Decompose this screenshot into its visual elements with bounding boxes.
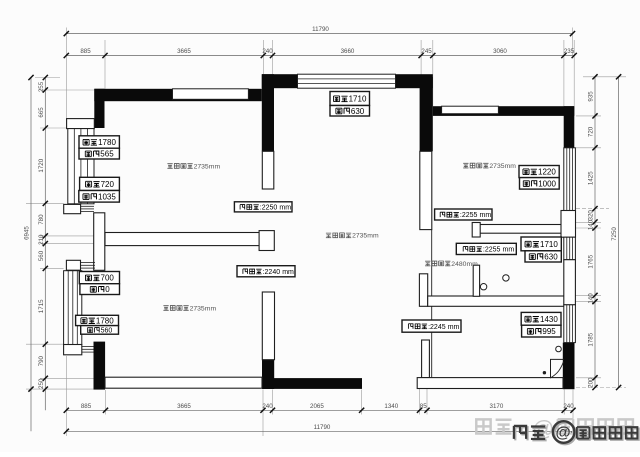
extension line bottom [419, 389, 421, 415]
extension line bottom [262, 390, 264, 437]
extension line bottom [563, 390, 565, 415]
extension line top [65, 28, 67, 119]
svg-text:1720: 1720 [38, 158, 45, 172]
sill lines [81, 205, 94, 207]
svg-text:0: 0 [105, 285, 110, 294]
svg-text:560: 560 [38, 250, 45, 261]
label 窗下560 [81, 326, 119, 335]
label 窗下565 [79, 148, 119, 159]
thin wall between left windows [94, 213, 105, 270]
dimension line bottom outer 11790 [66, 430, 573, 432]
label 窗下630 [330, 106, 370, 117]
svg-text:2480: 2480 [451, 261, 466, 268]
svg-text:1220: 1220 [538, 168, 556, 177]
bathroom top wall [474, 225, 564, 234]
sill lines [81, 267, 95, 269]
room label bathroom 室内净高2480mm [425, 261, 430, 266]
svg-text:7250: 7250 [611, 227, 618, 241]
dimension line right outer 7250 [618, 77, 620, 388]
dimension line right inner [594, 77, 596, 388]
svg-text:250: 250 [38, 378, 45, 389]
svg-text:565: 565 [100, 150, 114, 159]
extension line right [576, 115, 601, 117]
wall pier bottom-center [262, 360, 274, 389]
label 门洞高:2255mm (bathroom) [456, 243, 516, 254]
svg-text:6945: 6945 [24, 226, 31, 240]
extension line right [567, 294, 601, 296]
wall bottom of central room [262, 378, 362, 389]
svg-text:885: 885 [81, 403, 92, 410]
svg-text:1035: 1035 [98, 192, 116, 201]
svg-text:665: 665 [38, 107, 45, 118]
svg-text:235: 235 [564, 48, 575, 55]
extension line right [576, 221, 601, 223]
label 窗高700 (lower-left window) [79, 272, 119, 284]
extension line bottom [105, 390, 107, 415]
bottom wall of bottom-right room [417, 378, 563, 389]
svg-text:790: 790 [38, 355, 45, 366]
extension line left [26, 202, 64, 204]
svg-text:240: 240 [563, 403, 574, 410]
door jamb below central-left pier (door 2250) [262, 151, 274, 189]
svg-text:140: 140 [588, 219, 595, 230]
svg-text:3170: 3170 [490, 403, 504, 410]
shower screen wall [473, 265, 479, 296]
extension line left [40, 243, 94, 245]
svg-text:1000: 1000 [538, 179, 556, 188]
window bay lower-left: bottom end box [64, 345, 82, 355]
svg-text:11790: 11790 [312, 26, 329, 33]
svg-text:320: 320 [588, 210, 595, 221]
svg-text:200: 200 [588, 377, 595, 388]
svg-text:720: 720 [101, 180, 115, 189]
label 窗下995 [522, 325, 561, 337]
extension line left [40, 235, 94, 237]
svg-text:630: 630 [544, 252, 558, 261]
wall pier bottom-right corner [563, 343, 575, 390]
extension line bottom [572, 390, 574, 437]
svg-text:995: 995 [542, 327, 556, 336]
svg-text:mm: mm [505, 163, 517, 170]
beam/lintel over top-right wall opening [442, 106, 499, 114]
bathroom bottom wall [428, 296, 565, 306]
sill lines [82, 351, 94, 353]
wall pier bottom-left corner [94, 342, 106, 390]
label 门洞高:2255mm (top-right room) [435, 209, 492, 220]
floor drain circle 2 [480, 284, 486, 290]
svg-text:mm: mm [480, 212, 492, 219]
label 窗下1000 [520, 178, 560, 190]
svg-text:255: 255 [38, 81, 45, 92]
svg-text:3665: 3665 [177, 403, 191, 410]
wall pier central room left [262, 74, 274, 151]
small dot [543, 371, 546, 374]
svg-text:85: 85 [420, 403, 427, 410]
right wall end box between windows [561, 211, 576, 238]
window bay upper-left: top end box [67, 119, 95, 129]
svg-text:720: 720 [588, 126, 595, 137]
svg-text:mm: mm [367, 233, 379, 240]
extension line left [26, 388, 94, 390]
svg-text:2735: 2735 [489, 163, 504, 170]
extension line top [262, 40, 264, 74]
svg-text:2735: 2735 [194, 163, 209, 170]
extension line left [40, 267, 64, 269]
corridor wall end cap [259, 231, 274, 251]
watermark toutiao (dark embossed) 头条 @装修情报 [515, 423, 638, 445]
bathroom left wall [419, 274, 427, 307]
svg-text:3665: 3665 [177, 48, 191, 55]
extension line left [40, 89, 94, 91]
wall pier top-right corner [564, 106, 575, 148]
svg-text:@: @ [556, 425, 571, 442]
extension line right [576, 377, 601, 379]
label 窗高1780 (lower-left) [76, 315, 119, 325]
extension line top [572, 28, 574, 56]
svg-text:3060: 3060 [493, 48, 507, 55]
extension line top [563, 40, 565, 106]
room label top-left 室内净高2735mm [167, 164, 172, 169]
window lower-left (hatch) [64, 271, 82, 345]
extension line top [272, 40, 274, 74]
svg-text::2255: :2255 [483, 247, 501, 254]
svg-text:560: 560 [101, 328, 113, 335]
svg-text:1710: 1710 [540, 240, 558, 249]
label 窗高1430 (right wall lower window) [521, 312, 561, 325]
corner shower/door swing in bottom-right room [551, 359, 564, 378]
svg-text::2250: :2250 [260, 205, 278, 212]
hallway edge line [431, 230, 433, 378]
right wall window upper (hatch, 1220) [564, 148, 576, 211]
label 门洞高:2245mm (bottom-right room) [402, 320, 461, 332]
svg-text:1430: 1430 [540, 315, 558, 324]
svg-text:mm: mm [205, 305, 217, 312]
svg-text:2735: 2735 [352, 233, 367, 240]
wall pier central room right [420, 77, 433, 151]
svg-text:210: 210 [38, 234, 45, 245]
door jamb below central-right pier (door 2255) [420, 151, 432, 229]
right wall window middle (hatch, 1710) [564, 237, 576, 260]
sill lines [81, 208, 94, 210]
right wall segment (white) [564, 260, 576, 305]
svg-text:3660: 3660 [341, 48, 355, 55]
label 窗高1220 (right wall upper window) [519, 166, 559, 178]
bottom-right room left wall jamb (door 2245) [422, 340, 430, 378]
extension line bottom [426, 389, 428, 415]
svg-text:1765: 1765 [588, 254, 595, 268]
svg-text:700: 700 [101, 274, 115, 283]
label 窗高1710 (right wall middle window) [521, 237, 561, 251]
label 窗高1780 (upper-left window) [79, 136, 119, 148]
label 窗下0 [80, 284, 120, 295]
svg-text:mm: mm [503, 247, 515, 254]
extension line top [432, 40, 434, 106]
svg-text:mm: mm [467, 261, 479, 268]
wall top of central room [262, 74, 433, 88]
extension line top [420, 40, 422, 77]
svg-text:2065: 2065 [310, 403, 324, 410]
bottom wall of bottom-left room [105, 377, 262, 388]
window top-center (4-line) [298, 74, 396, 88]
dimension line left outer 6945 [30, 78, 32, 432]
extension line right [583, 76, 626, 78]
extension line top [104, 40, 106, 89]
label 门洞高:2250mm [234, 202, 292, 212]
sill lines [82, 348, 94, 350]
door jamb above bottom-center pier (door 2240) [262, 292, 274, 360]
small circle fixture [556, 346, 562, 352]
extension line right [576, 208, 609, 210]
label 窗高1710 (top window) [330, 92, 370, 106]
right wall window lower (hatch, 1430) [564, 305, 576, 343]
svg-text:mm: mm [279, 205, 291, 212]
dimension line bottom inner [66, 409, 573, 411]
extension line right [576, 387, 626, 389]
svg-text:mm: mm [448, 324, 460, 331]
extension line left [40, 127, 68, 129]
label 门洞高:2240mm [237, 266, 295, 277]
svg-text:2735: 2735 [190, 305, 205, 312]
interior corridor wall (between top-left and bottom-left rooms) [105, 233, 263, 246]
svg-text:1780: 1780 [96, 317, 114, 326]
svg-text:1340: 1340 [384, 403, 398, 410]
window bay upper-left: bottom end box [64, 204, 81, 213]
svg-text::2240: :2240 [263, 269, 281, 276]
wall top of top-right room [433, 106, 575, 116]
svg-text:140: 140 [588, 293, 595, 304]
wall pier top-left corner [94, 89, 104, 128]
svg-text:1780: 1780 [98, 138, 116, 147]
sill lines [82, 346, 94, 348]
sill lines [81, 211, 94, 213]
extension line bottom [65, 356, 67, 436]
svg-text:885: 885 [80, 48, 91, 55]
extension line bottom [361, 390, 363, 415]
room label top-right 室内净高2735mm [463, 163, 468, 168]
window bay lower-left: top end box [66, 260, 80, 270]
window upper-left (hatch) [68, 129, 94, 204]
watermark zhihu (light gray) 知乎 @装修情报 [476, 416, 633, 441]
svg-text:1785: 1785 [588, 332, 595, 346]
svg-text:mm: mm [282, 269, 294, 276]
extension line right [576, 227, 601, 229]
svg-text:1710: 1710 [349, 95, 367, 104]
svg-text:240: 240 [262, 403, 273, 410]
svg-text:1425: 1425 [588, 171, 595, 185]
sill lines [81, 262, 95, 264]
svg-text:mm: mm [209, 163, 221, 170]
extension line bottom [272, 390, 274, 415]
extension line right [567, 301, 601, 303]
label 窗高720 [80, 177, 120, 190]
extension line left [26, 343, 64, 345]
svg-text:245: 245 [421, 48, 432, 55]
sill lines [81, 264, 95, 266]
label 窗下1035 [79, 191, 120, 203]
extension line left [35, 77, 60, 79]
svg-text:240: 240 [262, 48, 273, 55]
svg-text:11790: 11790 [314, 424, 331, 431]
svg-text::2255: :2255 [460, 212, 478, 219]
dimension line top outer 11790 [66, 33, 572, 35]
dimension line left inner [44, 78, 46, 411]
beam/lintel over top-left wall opening [173, 89, 249, 100]
label 窗下630 (right wall) [525, 251, 561, 262]
room label central 室内净高2735mm [326, 233, 331, 238]
svg-text::2245: :2245 [428, 324, 446, 331]
dimension line top inner [66, 55, 574, 57]
room label bottom-left 室内净高2735mm [163, 306, 168, 311]
svg-text:780: 780 [38, 214, 45, 225]
extension line top [573, 40, 575, 106]
bathroom top wall end cap [472, 223, 480, 238]
svg-text:1715: 1715 [38, 299, 45, 313]
svg-text:935: 935 [588, 91, 595, 102]
extension line right [576, 147, 601, 149]
extension line left [40, 377, 94, 379]
wall top of living room (top-left) [94, 89, 261, 101]
svg-text:630: 630 [351, 107, 365, 116]
floor drain circle 1 [503, 275, 509, 281]
